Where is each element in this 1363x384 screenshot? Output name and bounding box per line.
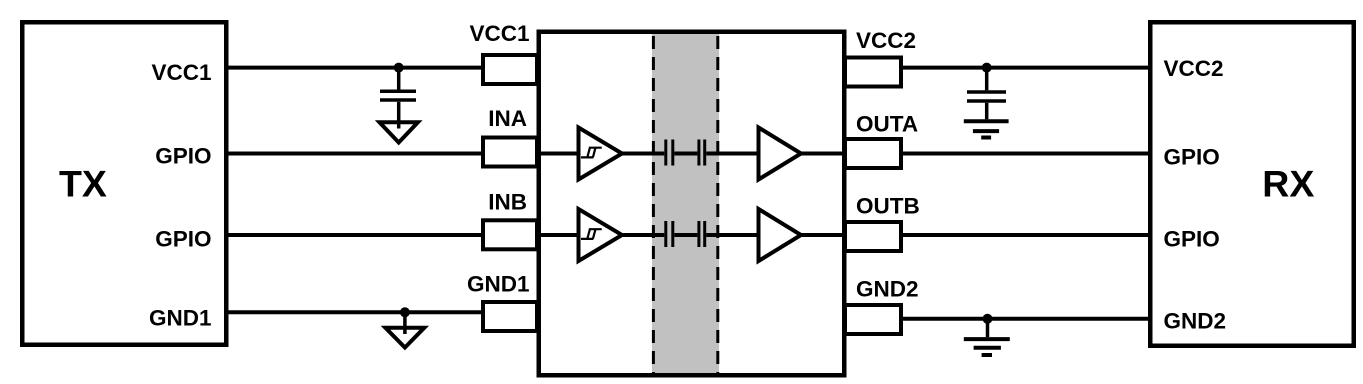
svg-text:GPIO: GPIO — [155, 226, 211, 251]
svg-text:GPIO: GPIO — [1164, 226, 1220, 251]
svg-text:GND1: GND1 — [467, 272, 530, 297]
svg-text:VCC2: VCC2 — [1164, 56, 1224, 81]
svg-text:INA: INA — [488, 106, 527, 131]
svg-text:OUTA: OUTA — [856, 112, 918, 137]
svg-text:VCC1: VCC1 — [469, 21, 529, 46]
svg-text:OUTB: OUTB — [856, 194, 920, 219]
svg-text:GND1: GND1 — [149, 306, 212, 331]
svg-text:INB: INB — [488, 190, 527, 215]
svg-text:GPIO: GPIO — [1164, 144, 1220, 169]
svg-text:VCC2: VCC2 — [856, 28, 916, 53]
svg-text:GND2: GND2 — [1164, 309, 1227, 334]
svg-text:VCC1: VCC1 — [151, 60, 211, 85]
svg-text:GPIO: GPIO — [155, 143, 211, 168]
svg-text:GND2: GND2 — [856, 277, 919, 302]
svg-text:RX: RX — [1262, 162, 1314, 204]
svg-text:TX: TX — [59, 162, 107, 204]
